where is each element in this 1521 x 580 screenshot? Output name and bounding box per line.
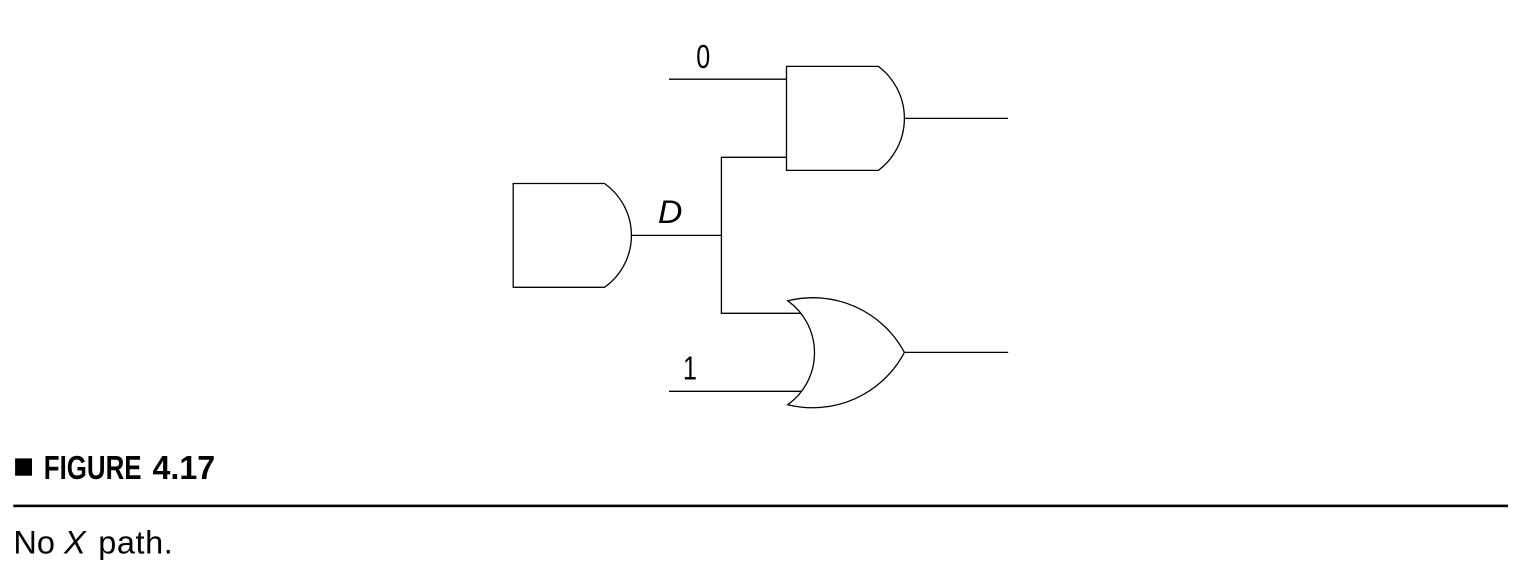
caption square bullet — [15, 458, 32, 475]
wire output of AND gate G2 — [904, 117, 1008, 119]
wire input 0 to AND gate G2 — [669, 78, 787, 80]
wire output of OR gate G3 — [904, 351, 1008, 353]
wire input 1 to OR gate G3 — [669, 390, 802, 392]
OR gate G3 (bottom, inputs D and 1) — [788, 298, 905, 408]
AND gate G1 (driving node D) — [513, 184, 631, 288]
svg-text:0: 0 — [696, 39, 710, 76]
svg-text:4.17: 4.17 — [153, 449, 216, 486]
caption rule — [13, 505, 1508, 508]
svg-text:D: D — [658, 194, 682, 230]
wire branch of node D to gate G2 lower input and OR gate G3 upper input — [721, 157, 801, 313]
wire node D from gate G1 output — [631, 234, 722, 236]
svg-text:FIGURE: FIGURE — [44, 450, 142, 487]
svg-text:path.: path. — [98, 525, 173, 561]
svg-text:X: X — [63, 525, 87, 561]
caption text No X path. — [13, 525, 173, 561]
svg-text:No: No — [13, 525, 55, 561]
svg-text:1: 1 — [683, 350, 697, 387]
AND gate G2 (top, inputs 0 and D) — [787, 66, 905, 170]
